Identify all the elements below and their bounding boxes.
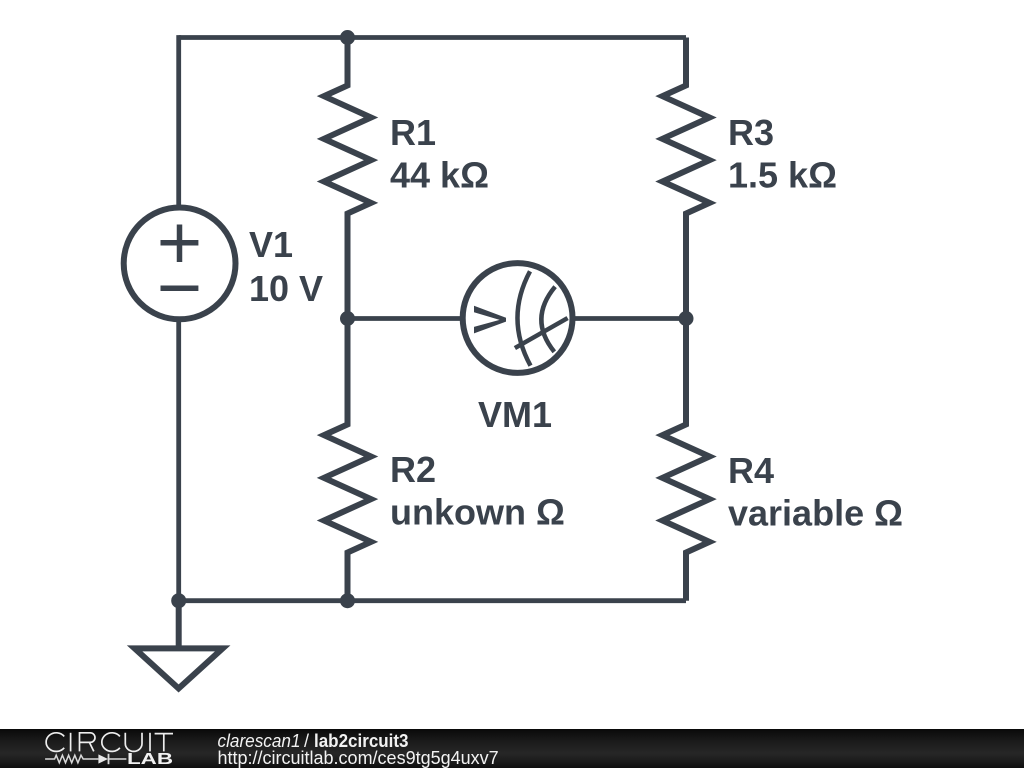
node mid-left junction (340, 311, 355, 326)
VM1 needle (515, 318, 568, 348)
resistor R3 (663, 38, 710, 319)
wire voltmeter left (348, 316, 464, 321)
logo resistor-diode symbol (45, 754, 126, 764)
footer credit line (218, 731, 409, 751)
svg-text:V1: V1 (249, 224, 293, 265)
voltmeter VM1 body (463, 263, 573, 373)
svg-text:R1: R1 (390, 112, 436, 153)
svg-text:unkown Ω: unkown Ω (390, 492, 565, 533)
svg-text:VM1: VM1 (478, 394, 552, 435)
svg-text:R2: R2 (390, 449, 436, 490)
node bottom junction (340, 593, 355, 608)
wire V1 bottom lead (176, 318, 181, 600)
ground symbol (135, 601, 223, 689)
svg-text:http://circuitlab.com/ces9tg5g: http://circuitlab.com/ces9tg5g4uxv7 (218, 748, 499, 768)
VM1 meter arc small (541, 287, 555, 352)
svg-text:variable Ω: variable Ω (728, 493, 903, 534)
node top junction (340, 30, 355, 45)
VM1 chevron (474, 306, 506, 334)
resistor R1 (324, 38, 371, 319)
V1 plus sign (161, 225, 199, 263)
resistor R2 (324, 319, 371, 601)
svg-text:1.5 kΩ: 1.5 kΩ (728, 155, 837, 196)
svg-text:R3: R3 (728, 112, 774, 153)
logo diode triangle (98, 754, 108, 763)
node ground junction (171, 593, 186, 608)
svg-text:LAB: LAB (127, 751, 173, 768)
VM1 meter arc large (517, 271, 530, 365)
wire V1 top lead (176, 35, 181, 208)
wire bottom rail (179, 598, 686, 603)
svg-text:44 kΩ: 44 kΩ (390, 155, 489, 196)
wire voltmeter right (572, 316, 686, 321)
V1 minus sign (161, 286, 199, 292)
footer bar (0, 729, 1024, 768)
logo CIRCUIT lettering (46, 733, 173, 752)
voltage source V1 body (124, 208, 236, 320)
wire top rail (179, 35, 686, 40)
node mid-right junction (679, 311, 694, 326)
svg-text:R4: R4 (728, 450, 774, 491)
svg-text:10 V: 10 V (249, 268, 323, 309)
resistor R4 (663, 319, 710, 601)
